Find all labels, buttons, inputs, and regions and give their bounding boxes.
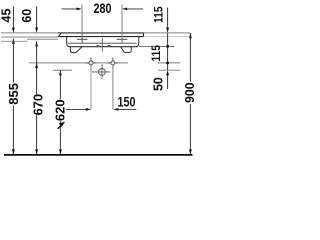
svg-text:45: 45	[0, 9, 13, 23]
svg-text:855: 855	[6, 83, 21, 105]
svg-text:60: 60	[20, 9, 34, 23]
svg-text:115: 115	[152, 6, 166, 23]
svg-text:280: 280	[94, 0, 112, 16]
svg-text:620: 620	[52, 99, 67, 121]
svg-text:115: 115	[149, 45, 163, 62]
svg-text:150: 150	[118, 94, 136, 110]
svg-text:50: 50	[152, 77, 166, 91]
svg-text:900: 900	[182, 82, 197, 103]
svg-text:670: 670	[31, 94, 46, 116]
